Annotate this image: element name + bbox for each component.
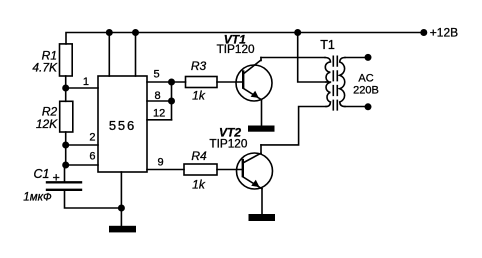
svg-text:5: 5 (154, 69, 160, 81)
wire IC pin 5 (147, 81, 186, 83)
svg-text:1k: 1k (192, 88, 206, 102)
svg-text:220В: 220В (353, 85, 379, 97)
wire IC pin 2 (66, 144, 98, 146)
svg-text:2: 2 (89, 131, 95, 143)
svg-text:6: 6 (89, 150, 95, 162)
wire IC pin 1 (66, 87, 98, 89)
op-amp U1 556 timer IC body (98, 76, 147, 172)
wire vcc drop to IC pin 4 (135, 33, 137, 77)
wire R4 to VT2 base (217, 169, 243, 171)
node +12V tap above T1 (294, 29, 301, 36)
ground VT2 emitter (249, 214, 276, 221)
wire pin2 to pin6 (65, 145, 67, 165)
wire top +12V rail (66, 33, 424, 45)
svg-text:556: 556 (109, 118, 136, 133)
svg-text:1k: 1k (192, 177, 206, 191)
node rail junction right (132, 29, 139, 36)
svg-text:1мкФ: 1мкФ (23, 192, 52, 204)
wire IC pin 8 (147, 100, 172, 102)
node secondary top terminal (365, 54, 372, 61)
resistor R3 (186, 77, 218, 88)
wire IC pin 9 (147, 169, 184, 171)
wire C1 negative lead to ground bus (65, 191, 122, 208)
svg-text:+12В: +12В (430, 26, 458, 40)
resistor R4 (184, 164, 217, 175)
wire VT2 collector to T1 primary bottom (261, 107, 326, 145)
svg-text:8: 8 (155, 90, 161, 102)
node secondary bottom terminal (365, 103, 372, 110)
svg-text:TIP120: TIP120 (217, 42, 255, 56)
svg-text:TIP120: TIP120 (209, 136, 247, 150)
capacitor C1 (47, 165, 81, 190)
wire R3 to VT1 base (217, 81, 243, 83)
transistor Q2 VT2 (237, 145, 273, 214)
node pin5 junction (168, 79, 175, 86)
svg-text:12K: 12K (36, 117, 58, 131)
resistor R2 (60, 88, 73, 145)
ground under IC (109, 226, 136, 233)
wire T1 secondary bottom terminal (345, 106, 368, 108)
ground VT1 emitter (248, 126, 275, 132)
wire pin5-pin8-pin12 tie (171, 82, 173, 120)
node R2/pin2 junction (62, 142, 69, 149)
svg-text:R3: R3 (191, 59, 207, 73)
node pin8 junction (168, 98, 175, 105)
transformer T1 core (333, 56, 337, 111)
node ground junction under IC (118, 205, 125, 212)
wire IC pin 12 (147, 119, 172, 121)
wire IC pin 7 to ground (120, 172, 122, 226)
svg-text:AC: AC (358, 73, 373, 85)
svg-text:1: 1 (83, 76, 89, 88)
svg-text:12: 12 (153, 108, 165, 120)
svg-text:T1: T1 (320, 38, 335, 52)
resistor R1 (60, 44, 73, 88)
node R1/R2/pin1 junction (62, 85, 69, 92)
wire IC pin 6 (66, 164, 98, 166)
wire +12V to T1 center tap (298, 33, 326, 83)
wire T1 secondary top terminal (345, 57, 368, 59)
svg-text:+: + (53, 170, 60, 184)
node +12V terminal (420, 29, 427, 36)
node C1/pin6 junction (62, 162, 69, 169)
transformer T1 primary winding (325, 58, 330, 107)
svg-text:R4: R4 (191, 149, 207, 163)
wire vcc drop to IC pin 14 (108, 33, 110, 77)
transistor Q1 VT1 (236, 58, 272, 126)
svg-text:C1: C1 (34, 167, 50, 181)
wire VT1 collector to T1 primary top (261, 57, 325, 59)
svg-text:4.7K: 4.7K (32, 61, 58, 75)
svg-text:9: 9 (158, 157, 164, 169)
node rail junction left (106, 29, 113, 36)
transformer T1 secondary winding (340, 58, 345, 107)
